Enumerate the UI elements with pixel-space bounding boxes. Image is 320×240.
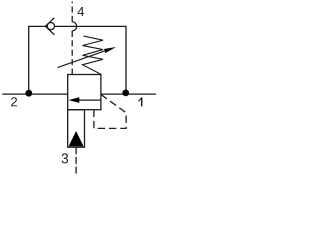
filled triangle flow to tank: [69, 131, 84, 146]
check valve seat: [45, 18, 54, 35]
junction dot node 2 side: [25, 90, 32, 97]
label 4: [77, 7, 84, 16]
spring adjustable zigzag: [83, 36, 104, 74]
wire bypass loop left vertical top horizontal right vertical: [29, 26, 126, 94]
label 3: [62, 153, 69, 163]
label 1: [138, 97, 142, 106]
tank rectangle: [68, 110, 85, 148]
valve body U1: [68, 75, 101, 110]
check valve ball: [47, 23, 54, 30]
pilot dashed path from outlet to drain chamber: [94, 95, 126, 129]
pilot vent dashed line above hop: [71, 2, 73, 22]
wire main line left segment port 2: [2, 93, 67, 95]
adjustment arrow head: [104, 47, 116, 53]
internal flow arrow head: [69, 97, 80, 103]
label 2: [11, 97, 17, 106]
wire hop over top line: [72, 22, 77, 31]
drain dashed line port 3: [75, 147, 77, 174]
internal flow arrow shaft: [79, 99, 101, 101]
junction dot node 1 side: [122, 90, 129, 97]
pilot vent dashed line below hop to valve body: [71, 31, 73, 75]
wire main line right segment port 1: [101, 93, 156, 95]
adjustment arrow shaft: [58, 51, 105, 68]
